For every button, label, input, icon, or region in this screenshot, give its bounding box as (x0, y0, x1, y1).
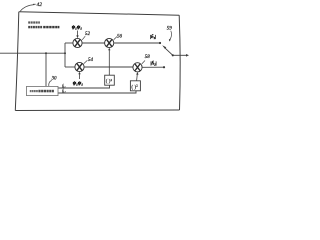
svg-text:59: 59 (167, 27, 173, 32)
mixer 52 (73, 38, 82, 47)
wire to mixer 54 (65, 66, 75, 68)
wire mixer56 out to switch top input (114, 42, 159, 44)
svg-text:( )2: ( )2 (131, 83, 138, 90)
switch arm with arrowhead toward top input (162, 45, 173, 55)
label 52 (82, 36, 85, 40)
switch 59 bottom input node (163, 66, 165, 68)
mixer 56 (105, 38, 114, 47)
svg-text:ψ1ψ1: ψ1ψ1 (72, 25, 82, 30)
svg-text:30: 30 (52, 77, 58, 82)
squarer box A ( )^2 (105, 75, 115, 85)
svg-text:54: 54 (88, 58, 94, 63)
label 58 (142, 61, 145, 64)
wire box A down to upper estimate bus (58, 85, 110, 88)
svg-text:52: 52 (85, 32, 91, 37)
leader for 42 (20, 5, 34, 12)
wire mixer52 out to mixer56 (82, 42, 105, 44)
title text ダイバーシチ受信機 (blob line 2) (28, 26, 59, 28)
weight arrow into mixer 52 top (76, 31, 78, 39)
switch pivot node (172, 54, 174, 56)
output arrow (173, 54, 189, 57)
mixer 58 (133, 63, 142, 72)
leader for 59 (with arrowhead) (169, 31, 172, 42)
wire box B down to lower estimate bus (58, 91, 136, 93)
channel estimator box 30 (27, 86, 59, 95)
switch 59 top input node (159, 42, 161, 44)
wire down to channel estimator (45, 53, 47, 86)
diversity receiver block 42 (outer box) (15, 12, 180, 111)
svg-text:|ĥ2|: |ĥ2| (151, 60, 157, 66)
label 54 (84, 60, 88, 63)
wire mixer58 out to switch bottom input (142, 66, 163, 68)
title text 最大比合成 (blob line 1) (28, 21, 40, 23)
node (split to mixers) (64, 52, 66, 54)
svg-text:|ĥ1|: |ĥ1| (150, 34, 156, 40)
svg-text:ĥ2: ĥ2 (62, 88, 66, 94)
wire split vertical (64, 43, 66, 67)
wire to mixer 52 (65, 42, 73, 44)
estimator text チャネル推定器 (blobs) (30, 90, 54, 93)
wire mixer54 out to mixer58 (84, 66, 133, 68)
svg-text:58: 58 (145, 55, 151, 60)
label 56 (114, 37, 117, 40)
svg-text:56: 56 (117, 35, 123, 40)
input wire r(t) (0, 52, 65, 54)
mixer 54 (75, 62, 84, 71)
svg-text:ψ1ψ1: ψ1ψ1 (73, 82, 83, 87)
svg-text:42: 42 (37, 2, 43, 8)
wire box A up to mixer 56 (with up arrow) (108, 48, 110, 75)
svg-text:( )2: ( )2 (106, 78, 113, 85)
squarer box B ( )^2 (130, 81, 140, 91)
node (branch to estimator) (45, 52, 47, 54)
weight arrow into mixer 54 bottom (78, 72, 80, 79)
wire box B up to mixer 58 (with up arrow) (136, 72, 138, 81)
leader for 30 (49, 81, 52, 87)
